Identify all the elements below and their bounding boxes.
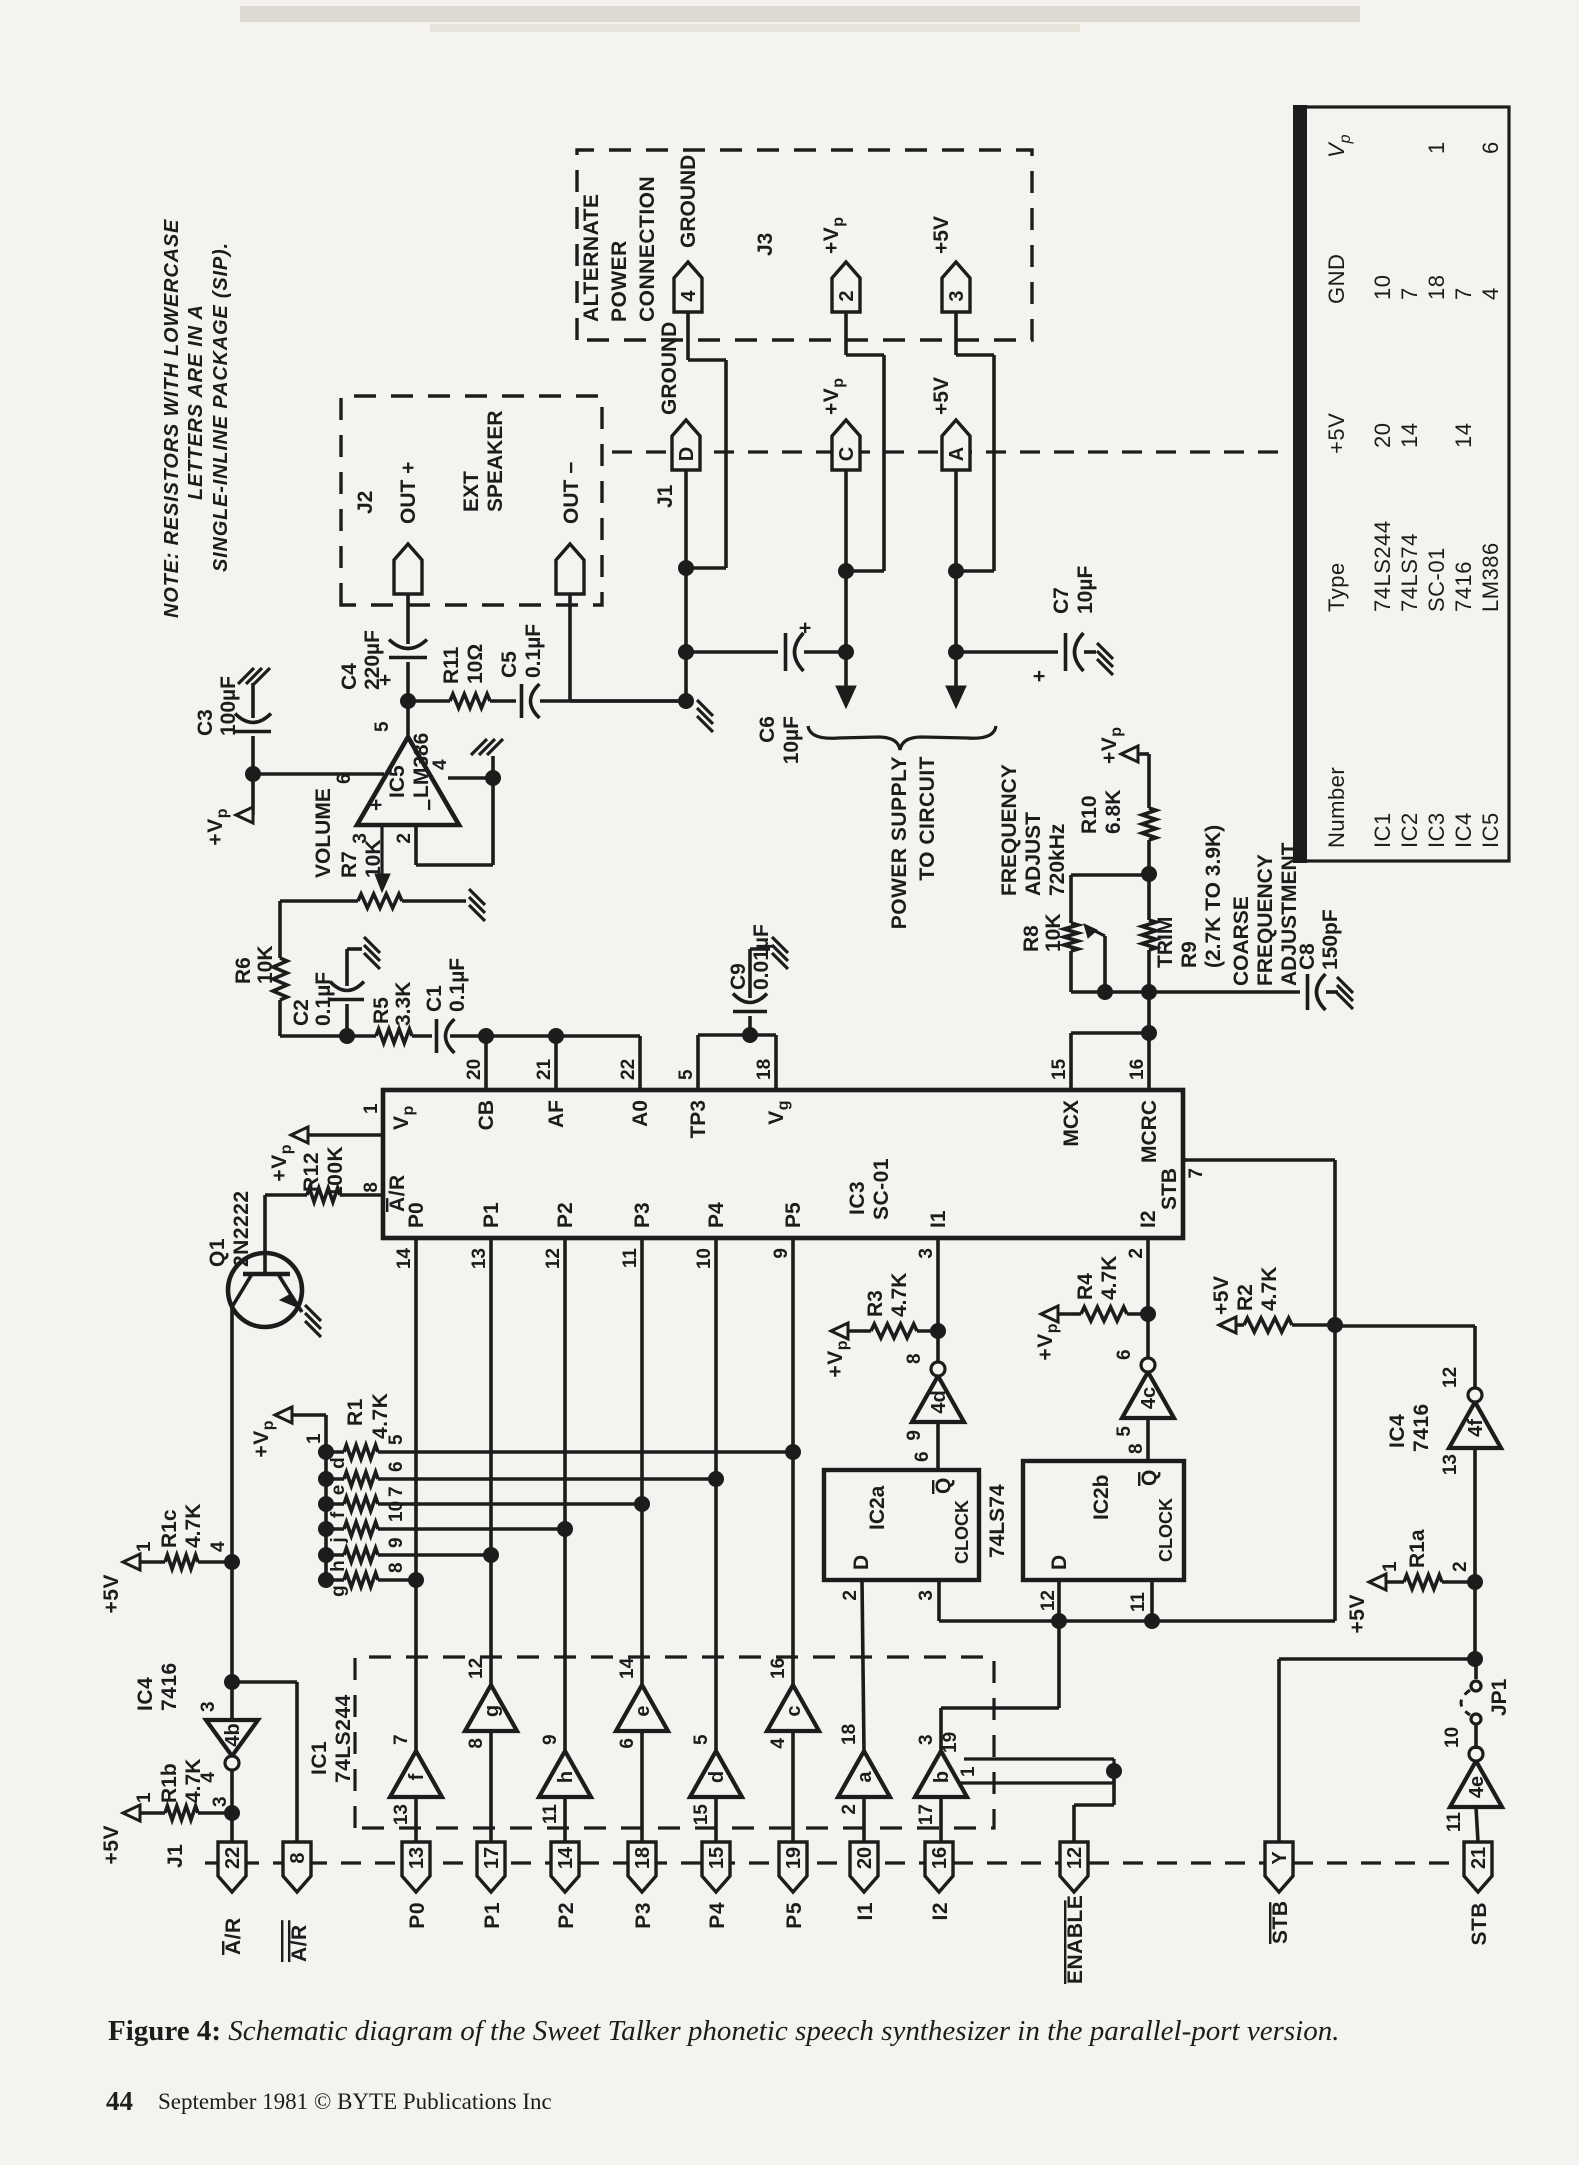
svg-text:A/R: A/R xyxy=(386,1174,409,1212)
svg-text:10: 10 xyxy=(1370,275,1395,300)
svg-text:−: − xyxy=(418,799,441,811)
svg-text:A: A xyxy=(946,447,968,461)
svg-text:22: 22 xyxy=(618,1059,639,1080)
svg-text:19: 19 xyxy=(940,1732,961,1753)
svg-text:14: 14 xyxy=(1451,423,1476,448)
svg-text:STB: STB xyxy=(1468,1902,1491,1946)
svg-text:7: 7 xyxy=(391,1734,412,1745)
svg-text:720kHz: 720kHz xyxy=(1046,824,1069,896)
svg-text:a: a xyxy=(854,1771,876,1783)
svg-text:10µF: 10µF xyxy=(1074,566,1097,614)
svg-text:COARSE: COARSE xyxy=(1230,896,1253,986)
svg-text:14: 14 xyxy=(555,1846,577,1869)
svg-text:10: 10 xyxy=(386,1501,407,1522)
svg-text:EXT: EXT xyxy=(460,471,483,512)
svg-text:8: 8 xyxy=(904,1353,925,1364)
svg-text:74LS74: 74LS74 xyxy=(1397,533,1422,612)
svg-text:NOTE: RESISTORS WITH LOWERC: NOTE: RESISTORS WITH LOWERCASE xyxy=(161,219,183,618)
svg-text:5: 5 xyxy=(676,1069,697,1080)
svg-text:AF: AF xyxy=(545,1100,568,1128)
svg-text:OUT −: OUT − xyxy=(560,462,583,524)
svg-text:44: 44 xyxy=(106,2086,133,2116)
svg-text:+5V: +5V xyxy=(100,1574,123,1613)
svg-text:4: 4 xyxy=(430,759,451,770)
svg-text:22: 22 xyxy=(222,1847,244,1869)
svg-text:R12: R12 xyxy=(300,1152,323,1192)
svg-text:IC2b: IC2b xyxy=(1090,1474,1113,1520)
svg-text:4.7K: 4.7K xyxy=(888,1273,911,1317)
svg-text:10µF: 10µF xyxy=(780,716,803,764)
svg-text:7416: 7416 xyxy=(158,1662,181,1711)
svg-text:13: 13 xyxy=(391,1804,412,1825)
svg-text:10K: 10K xyxy=(254,945,277,984)
svg-text:MCX: MCX xyxy=(1060,1100,1083,1147)
svg-text:12: 12 xyxy=(1038,1590,1059,1611)
svg-text:CB: CB xyxy=(475,1100,498,1130)
svg-text:R8: R8 xyxy=(1020,925,1043,952)
svg-text:20: 20 xyxy=(854,1847,876,1869)
svg-text:C: C xyxy=(836,447,858,461)
svg-text:C6: C6 xyxy=(756,716,779,743)
svg-text:d: d xyxy=(706,1771,728,1783)
svg-text:6: 6 xyxy=(334,773,355,784)
svg-text:ADJUSTMENT: ADJUSTMENT xyxy=(1278,842,1301,986)
svg-text:13: 13 xyxy=(406,1847,428,1869)
svg-text:1: 1 xyxy=(1380,1561,1401,1572)
svg-text:100K: 100K xyxy=(324,1146,347,1198)
svg-text:1: 1 xyxy=(1424,141,1449,154)
svg-text:5: 5 xyxy=(691,1734,712,1745)
svg-text:4.7K: 4.7K xyxy=(369,1393,392,1439)
svg-text:J3: J3 xyxy=(754,233,777,256)
svg-text:11: 11 xyxy=(1128,1592,1149,1613)
svg-text:VOLUME: VOLUME xyxy=(312,788,335,878)
svg-text:74LS74: 74LS74 xyxy=(986,1484,1009,1558)
svg-text:Figure 4: Schematic diagram of: Figure 4: Schematic diagram of the Sweet… xyxy=(108,2015,1340,2047)
svg-text:A/R: A/R xyxy=(288,1924,311,1962)
svg-text:R9: R9 xyxy=(1178,941,1201,968)
svg-text:D: D xyxy=(850,1555,873,1570)
svg-text:18: 18 xyxy=(839,1724,860,1745)
svg-text:6: 6 xyxy=(1114,1349,1135,1360)
svg-text:TO CIRCUIT: TO CIRCUIT xyxy=(916,756,939,881)
svg-text:2: 2 xyxy=(836,290,858,301)
svg-text:g: g xyxy=(481,1705,503,1717)
svg-text:4.7K: 4.7K xyxy=(1098,1256,1121,1300)
svg-text:13: 13 xyxy=(1440,1454,1461,1475)
svg-text:100µF: 100µF xyxy=(217,676,240,736)
svg-text:Q1: Q1 xyxy=(206,1238,229,1267)
svg-text:9: 9 xyxy=(904,1430,925,1441)
svg-text:+: + xyxy=(794,622,817,634)
svg-text:IC5: IC5 xyxy=(1478,812,1503,848)
svg-text:GROUND: GROUND xyxy=(658,322,681,415)
svg-text:C9: C9 xyxy=(727,963,750,990)
svg-text:CONNECTION: CONNECTION xyxy=(636,176,659,322)
svg-text:150pF: 150pF xyxy=(1319,909,1342,970)
svg-text:14: 14 xyxy=(394,1248,415,1270)
svg-text:I1: I1 xyxy=(927,1210,950,1228)
svg-text:Q: Q xyxy=(932,1477,955,1494)
svg-text:21: 21 xyxy=(534,1058,555,1080)
svg-text:IC4: IC4 xyxy=(1386,1414,1409,1448)
svg-text:12: 12 xyxy=(466,1658,487,1679)
svg-text:6.8K: 6.8K xyxy=(1102,790,1125,834)
svg-text:ENABLE: ENABLE xyxy=(1064,1895,1087,1984)
svg-text:4: 4 xyxy=(1478,287,1503,300)
svg-text:4d: 4d xyxy=(928,1390,950,1413)
svg-text:7: 7 xyxy=(386,1486,407,1497)
svg-text:IC4: IC4 xyxy=(134,1677,157,1711)
svg-text:17: 17 xyxy=(481,1847,503,1869)
svg-text:12: 12 xyxy=(1440,1367,1461,1388)
svg-text:12: 12 xyxy=(1064,1847,1086,1869)
svg-text:10K: 10K xyxy=(1042,913,1065,952)
svg-text:R1c: R1c xyxy=(158,1509,181,1548)
svg-text:(2.7K TO 3.9K): (2.7K TO 3.9K) xyxy=(1202,825,1225,968)
svg-text:2N2222: 2N2222 xyxy=(230,1190,253,1267)
svg-text:f: f xyxy=(328,1511,349,1518)
svg-text:5: 5 xyxy=(386,1434,407,1445)
svg-text:4: 4 xyxy=(678,290,700,302)
svg-text:8: 8 xyxy=(466,1738,487,1749)
svg-text:P5: P5 xyxy=(782,1202,805,1228)
svg-text:SINGLE-INLINE PACKAGE (SIP).: SINGLE-INLINE PACKAGE (SIP). xyxy=(210,242,232,572)
svg-text:+: + xyxy=(365,799,388,811)
svg-text:C5: C5 xyxy=(498,651,521,678)
svg-text:C1: C1 xyxy=(423,985,446,1012)
svg-text:2: 2 xyxy=(394,833,415,844)
svg-text:P1: P1 xyxy=(480,1202,503,1228)
svg-text:I1: I1 xyxy=(854,1902,877,1921)
svg-text:3: 3 xyxy=(916,1590,937,1601)
svg-text:0.1µF: 0.1µF xyxy=(446,958,469,1012)
svg-text:CLOCK: CLOCK xyxy=(952,1500,972,1564)
svg-text:1: 1 xyxy=(134,1792,155,1803)
svg-text:9: 9 xyxy=(771,1248,792,1259)
svg-text:15: 15 xyxy=(1049,1058,1070,1080)
svg-text:4c: 4c xyxy=(1138,1387,1160,1409)
svg-text:16: 16 xyxy=(768,1658,789,1679)
svg-text:15: 15 xyxy=(706,1847,728,1869)
svg-text:R4: R4 xyxy=(1074,1273,1097,1300)
svg-text:IC2: IC2 xyxy=(1397,812,1422,848)
svg-text:e: e xyxy=(632,1705,654,1716)
svg-text:R10: R10 xyxy=(1078,795,1101,834)
svg-text:10: 10 xyxy=(694,1248,715,1269)
svg-text:SC-01: SC-01 xyxy=(870,1158,893,1220)
svg-text:OUT +: OUT + xyxy=(397,462,420,524)
svg-text:10K: 10K xyxy=(362,839,385,878)
svg-text:g: g xyxy=(328,1585,349,1597)
svg-text:15: 15 xyxy=(691,1804,712,1826)
svg-text:c: c xyxy=(783,1705,805,1716)
svg-text:1: 1 xyxy=(361,1103,382,1114)
svg-text:14: 14 xyxy=(1397,423,1422,448)
svg-text:+5V: +5V xyxy=(1346,1594,1369,1633)
svg-text:C7: C7 xyxy=(1050,587,1073,614)
svg-text:8: 8 xyxy=(1126,1443,1147,1454)
svg-text:3: 3 xyxy=(916,1248,937,1259)
svg-text:5: 5 xyxy=(1114,1426,1135,1437)
svg-text:D: D xyxy=(676,447,698,461)
svg-text:IC1: IC1 xyxy=(308,1741,331,1775)
svg-text:8: 8 xyxy=(287,1852,309,1863)
svg-text:POWER: POWER xyxy=(608,240,631,322)
svg-text:0.1µF: 0.1µF xyxy=(312,972,335,1026)
svg-text:C2: C2 xyxy=(290,999,313,1026)
svg-text:R3: R3 xyxy=(864,1290,887,1317)
svg-text:P0: P0 xyxy=(406,1902,429,1929)
svg-text:R2: R2 xyxy=(1234,1284,1257,1311)
svg-text:2: 2 xyxy=(840,1590,861,1601)
svg-text:ADJUST: ADJUST xyxy=(1022,812,1045,896)
svg-text:17: 17 xyxy=(916,1804,937,1825)
svg-text:7416: 7416 xyxy=(1410,1403,1433,1452)
svg-text:2: 2 xyxy=(1450,1561,1471,1572)
svg-text:R6: R6 xyxy=(232,957,255,984)
svg-text:19: 19 xyxy=(783,1847,805,1869)
svg-text:R7: R7 xyxy=(338,851,361,878)
svg-text:0.01µF: 0.01µF xyxy=(750,924,773,990)
svg-text:TRIM: TRIM xyxy=(1154,917,1177,968)
svg-text:20: 20 xyxy=(1370,423,1395,448)
svg-text:3: 3 xyxy=(198,1701,219,1712)
svg-text:CLOCK: CLOCK xyxy=(1156,1498,1176,1562)
svg-text:September 1981 © BYTE Publicat: September 1981 © BYTE Publications Inc xyxy=(158,2089,552,2114)
svg-text:j: j xyxy=(328,1537,349,1543)
svg-text:3: 3 xyxy=(210,1796,231,1807)
svg-text:6: 6 xyxy=(912,1451,933,1462)
svg-text:0.1µF: 0.1µF xyxy=(522,624,545,678)
svg-text:GROUND: GROUND xyxy=(677,155,700,248)
svg-text:Type: Type xyxy=(1324,562,1349,612)
svg-text:5: 5 xyxy=(372,721,393,732)
svg-text:2: 2 xyxy=(1126,1248,1147,1259)
svg-text:9: 9 xyxy=(540,1734,561,1745)
svg-text:4.7K: 4.7K xyxy=(182,1504,205,1548)
svg-text:D: D xyxy=(1048,1555,1071,1570)
svg-text:18: 18 xyxy=(754,1059,775,1080)
svg-text:IC4: IC4 xyxy=(1451,812,1476,848)
svg-text:2: 2 xyxy=(839,1804,860,1815)
svg-text:18: 18 xyxy=(632,1847,654,1869)
svg-text:R1: R1 xyxy=(344,1398,367,1426)
svg-text:IC2a: IC2a xyxy=(866,1485,889,1530)
svg-text:STB: STB xyxy=(1158,1168,1181,1210)
svg-text:SPEAKER: SPEAKER xyxy=(484,410,507,512)
svg-text:J1: J1 xyxy=(164,1844,187,1868)
svg-text:+: + xyxy=(1028,670,1051,682)
svg-text:4f: 4f xyxy=(1465,1419,1487,1437)
svg-text:ALTERNATE: ALTERNATE xyxy=(580,193,603,322)
svg-text:Number: Number xyxy=(1324,767,1349,848)
svg-text:R5: R5 xyxy=(370,997,393,1024)
svg-text:13: 13 xyxy=(469,1248,490,1269)
svg-text:4: 4 xyxy=(768,1738,789,1749)
svg-text:JP1: JP1 xyxy=(1488,1678,1511,1716)
svg-text:STB: STB xyxy=(1269,1901,1292,1945)
svg-text:R1a: R1a xyxy=(1406,1529,1429,1568)
svg-text:+5V: +5V xyxy=(930,216,953,254)
svg-text:TP3: TP3 xyxy=(687,1100,710,1139)
svg-text:P2: P2 xyxy=(554,1202,577,1228)
svg-text:FREQUENCY: FREQUENCY xyxy=(998,764,1021,896)
svg-text:21: 21 xyxy=(1468,1847,1490,1869)
svg-text:MCRC: MCRC xyxy=(1138,1100,1161,1163)
svg-text:IC5: IC5 xyxy=(386,765,409,798)
svg-text:LM386: LM386 xyxy=(1478,542,1503,612)
svg-text:d: d xyxy=(328,1457,349,1469)
svg-text:10: 10 xyxy=(1442,1727,1463,1748)
svg-text:7: 7 xyxy=(1451,287,1476,300)
svg-text:14: 14 xyxy=(617,1657,638,1679)
svg-text:LETTERS ARE IN A: LETTERS ARE IN A xyxy=(185,304,207,500)
svg-text:4b: 4b xyxy=(222,1723,244,1746)
svg-text:P3: P3 xyxy=(632,1902,655,1929)
svg-text:GND: GND xyxy=(1324,254,1349,304)
svg-text:Y: Y xyxy=(1269,1851,1291,1865)
svg-text:12: 12 xyxy=(543,1248,564,1269)
svg-text:P3: P3 xyxy=(631,1202,654,1228)
svg-text:J2: J2 xyxy=(354,491,377,514)
svg-text:3.3K: 3.3K xyxy=(392,982,415,1026)
svg-text:IC3: IC3 xyxy=(846,1181,869,1215)
svg-text:3: 3 xyxy=(350,833,371,844)
svg-text:18: 18 xyxy=(1424,275,1449,300)
svg-text:7: 7 xyxy=(1186,1168,1207,1179)
svg-text:11: 11 xyxy=(620,1248,641,1269)
svg-text:P1: P1 xyxy=(481,1902,504,1929)
svg-text:74LS244: 74LS244 xyxy=(332,1694,355,1783)
svg-text:+5V: +5V xyxy=(930,377,953,415)
svg-text:4: 4 xyxy=(208,1541,229,1552)
svg-text:4e: 4e xyxy=(1466,1776,1488,1798)
svg-text:1: 1 xyxy=(304,1433,325,1444)
svg-text:J1: J1 xyxy=(654,484,677,508)
svg-text:+5V: +5V xyxy=(1210,1276,1233,1315)
svg-text:8: 8 xyxy=(361,1182,382,1193)
svg-text:1: 1 xyxy=(134,1541,155,1552)
svg-text:Q: Q xyxy=(1138,1469,1161,1486)
svg-text:b: b xyxy=(931,1771,953,1783)
svg-text:1: 1 xyxy=(958,1766,979,1777)
svg-text:11: 11 xyxy=(1444,1812,1465,1833)
svg-text:3: 3 xyxy=(946,290,968,301)
svg-text:R11: R11 xyxy=(440,646,463,684)
svg-text:P5: P5 xyxy=(783,1902,806,1929)
svg-text:4.7K: 4.7K xyxy=(182,1759,205,1803)
svg-text:4.7K: 4.7K xyxy=(1258,1267,1281,1311)
svg-text:P4: P4 xyxy=(706,1902,729,1929)
svg-text:SC-01: SC-01 xyxy=(1424,547,1449,612)
svg-text:I2: I2 xyxy=(929,1902,952,1921)
svg-text:C3: C3 xyxy=(194,709,217,736)
svg-text:10Ω: 10Ω xyxy=(464,644,487,684)
svg-text:A/R: A/R xyxy=(222,1917,245,1955)
svg-text:6: 6 xyxy=(386,1461,407,1472)
svg-text:I2: I2 xyxy=(1137,1210,1160,1228)
svg-text:20: 20 xyxy=(464,1059,485,1080)
svg-text:FREQUENCY: FREQUENCY xyxy=(1254,854,1277,986)
svg-text:8: 8 xyxy=(386,1562,407,1573)
svg-text:74LS244: 74LS244 xyxy=(1370,520,1395,612)
svg-text:9: 9 xyxy=(386,1537,407,1548)
svg-text:h: h xyxy=(555,1771,577,1783)
svg-text:6: 6 xyxy=(1478,141,1503,154)
svg-text:3: 3 xyxy=(916,1734,937,1745)
svg-text:16: 16 xyxy=(1127,1059,1148,1080)
svg-text:R1b: R1b xyxy=(158,1763,181,1803)
svg-text:IC3: IC3 xyxy=(1424,812,1449,848)
svg-text:7416: 7416 xyxy=(1451,561,1476,612)
svg-text:P4: P4 xyxy=(705,1202,728,1228)
svg-text:IC1: IC1 xyxy=(1370,812,1395,848)
svg-text:P2: P2 xyxy=(555,1902,578,1929)
svg-text:A0: A0 xyxy=(629,1100,652,1127)
svg-text:POWER SUPPLY: POWER SUPPLY xyxy=(888,756,911,929)
svg-text:f: f xyxy=(406,1773,428,1780)
svg-text:220µF: 220µF xyxy=(361,630,384,690)
svg-text:C4: C4 xyxy=(338,663,361,690)
svg-text:7: 7 xyxy=(1397,287,1422,300)
svg-text:16: 16 xyxy=(929,1847,951,1869)
svg-text:6: 6 xyxy=(617,1738,638,1749)
svg-text:+5V: +5V xyxy=(1324,413,1349,454)
svg-text:11: 11 xyxy=(540,1804,561,1825)
svg-text:+5V: +5V xyxy=(100,1825,123,1864)
